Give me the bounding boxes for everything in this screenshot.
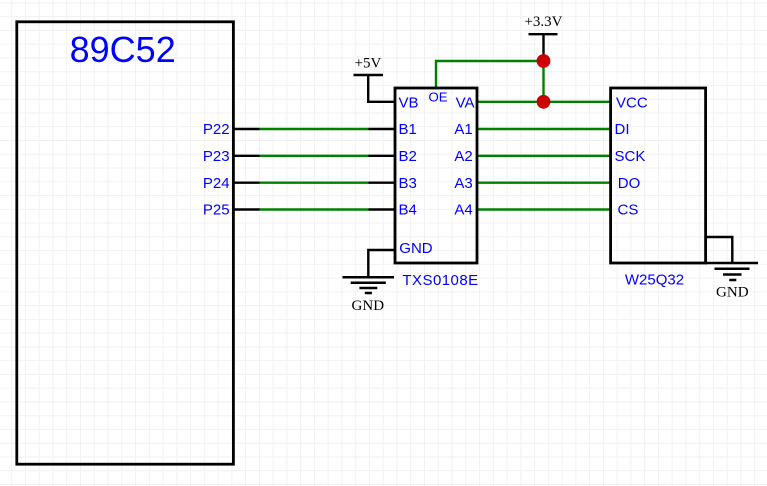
svg-text:GND: GND xyxy=(352,298,385,314)
svg-text:W25Q32: W25Q32 xyxy=(625,272,684,289)
wire TXS GND pin to ground xyxy=(368,250,395,277)
IC W25Q32 body xyxy=(611,88,706,263)
svg-text:B1: B1 xyxy=(399,121,417,138)
svg-text:CS: CS xyxy=(618,202,639,219)
svg-text:A3: A3 xyxy=(454,175,472,192)
wire P22 to B1 (black segment right) xyxy=(369,128,396,130)
svg-text:P25: P25 xyxy=(203,202,230,219)
wire A1 to DI xyxy=(477,128,611,130)
ground symbol (right) xyxy=(706,263,758,280)
wire P25 to B4 (black segment right) xyxy=(369,208,396,210)
ground symbol (left) xyxy=(343,277,395,293)
power +5V bar xyxy=(354,74,384,77)
svg-text:VB: VB xyxy=(399,94,419,111)
wire P22 to B1 (green segment) xyxy=(260,128,369,130)
junction dot node 1 xyxy=(537,54,551,68)
wire P25 to B4 (green segment) xyxy=(260,208,369,210)
wire A3 to DO xyxy=(477,181,611,183)
svg-text:SCK: SCK xyxy=(615,148,646,165)
wire P23 to B2 (green segment) xyxy=(260,155,369,157)
wire +3.3V node vertical xyxy=(542,61,544,102)
wire W25Q32 GND to ground xyxy=(706,237,733,263)
svg-text:89C52: 89C52 xyxy=(70,29,176,70)
svg-text:P24: P24 xyxy=(203,175,230,192)
svg-text:GND: GND xyxy=(716,284,749,300)
wire VA to VCC (net +3.3V) xyxy=(477,101,611,103)
power +5V stem and wire to VB xyxy=(368,75,395,102)
IC 89C52 body xyxy=(17,22,234,464)
svg-text:VA: VA xyxy=(456,94,475,111)
wire A4 to CS xyxy=(477,208,611,210)
svg-text:P23: P23 xyxy=(203,148,230,165)
wire P23 to B2 (black segment left) xyxy=(233,155,259,157)
wire P24 to B3 (green segment) xyxy=(260,181,369,183)
svg-text:TXS0108E: TXS0108E xyxy=(402,272,478,289)
svg-text:A2: A2 xyxy=(454,148,472,165)
svg-text:DI: DI xyxy=(615,121,630,138)
IC TXS0108E body xyxy=(395,88,477,263)
wire P23 to B2 (black segment right) xyxy=(369,155,396,157)
junction dot node 2 xyxy=(537,95,551,109)
power +3.3V bar xyxy=(529,33,558,35)
svg-text:B2: B2 xyxy=(399,148,417,165)
svg-text:P22: P22 xyxy=(203,121,230,138)
svg-text:VCC: VCC xyxy=(616,94,648,111)
svg-text:GND: GND xyxy=(399,240,433,257)
wire P25 to B4 (black segment left) xyxy=(233,208,259,210)
svg-text:+3.3V: +3.3V xyxy=(524,14,562,30)
wire P24 to B3 (black segment left) xyxy=(233,181,259,183)
wire P22 to B1 (black segment left) xyxy=(233,128,259,130)
svg-text:DO: DO xyxy=(618,175,641,192)
svg-text:A4: A4 xyxy=(454,202,472,219)
wire OE to +3.3V node xyxy=(436,61,544,88)
wire P24 to B3 (black segment right) xyxy=(369,181,396,183)
wire A2 to SCK xyxy=(477,155,611,157)
svg-text:OE: OE xyxy=(428,90,447,105)
svg-text:B4: B4 xyxy=(399,202,417,219)
svg-text:+5V: +5V xyxy=(355,56,382,72)
svg-text:A1: A1 xyxy=(454,121,472,138)
power +3.3V stem xyxy=(542,34,544,61)
svg-text:B3: B3 xyxy=(399,175,417,192)
